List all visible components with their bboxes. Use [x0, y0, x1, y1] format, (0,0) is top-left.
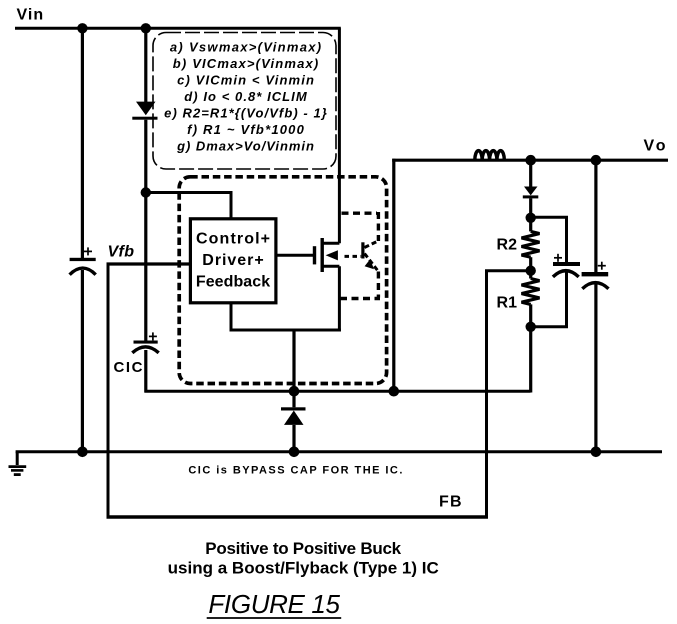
formula note box [153, 33, 336, 170]
wire CIC bottom lead [144, 350, 147, 393]
resistor R2 [522, 231, 540, 257]
wire VIC to control box top [146, 193, 231, 220]
wire D1 anode lead [144, 28, 147, 102]
junction D1 anode [141, 23, 151, 33]
wire FB loop left vertical [107, 264, 110, 519]
IC dashed outline [179, 177, 386, 384]
wire gate lead [276, 254, 313, 257]
transistor Q2 dashed BJT [340, 212, 380, 299]
svg-text:d) Io < 0.8* ICLIM: d) Io < 0.8* ICLIM [184, 89, 308, 104]
wire output rail [392, 159, 668, 162]
wire D1 cathode to node VIC [144, 120, 147, 192]
junction dot inductor out [525, 155, 536, 166]
wire CIC top lead [144, 193, 147, 342]
wire R2 to R1 [529, 257, 532, 278]
svg-text:c) VICmin < Vinmin: c) VICmin < Vinmin [177, 73, 314, 88]
svg-text:a) Vswmax>(Vinmax): a) Vswmax>(Vinmax) [170, 40, 321, 55]
svg-text:R1: R1 [497, 294, 518, 311]
svg-text:CIC is BYPASS CAP FOR THE IC.: CIC is BYPASS CAP FOR THE IC. [188, 465, 402, 477]
junction dot feedback cap top [526, 213, 536, 223]
junction dot output cap ground [591, 447, 602, 458]
inductor L1 [475, 151, 505, 161]
wire FB loop bottom [107, 515, 489, 518]
svg-text:Feedback: Feedback [196, 273, 270, 290]
wire C2 bottom lead [531, 272, 567, 327]
junction dot feedback tap [526, 266, 536, 276]
svg-text:Control+: Control+ [196, 231, 270, 248]
svg-text:Driver+: Driver+ [202, 252, 263, 269]
svg-text:f) R1 ~ Vfb*1000: f) R1 ~ Vfb*1000 [187, 122, 304, 137]
svg-text:Positive to Positive Buck: Positive to Positive Buck [205, 539, 401, 558]
svg-text:using a Boost/Flyback (Type 1): using a Boost/Flyback (Type 1) IC [168, 559, 439, 578]
wire drain to Vin rail [338, 28, 341, 243]
svg-text:CIC: CIC [114, 359, 143, 376]
svg-text:R2: R2 [497, 236, 518, 253]
node VIC junction dot [141, 187, 151, 197]
wire ground bus [16, 450, 662, 453]
junction dot R1 bottom [526, 322, 536, 332]
wire control box bottom stub [230, 303, 233, 332]
diode D1 [132, 102, 157, 120]
wire input cap bottom lead [81, 270, 84, 452]
capacitor C3 output [582, 160, 609, 452]
control block U1 [190, 219, 276, 303]
svg-text:Vin: Vin [17, 7, 44, 24]
svg-text:Vfb: Vfb [108, 243, 135, 260]
junction input cap top [77, 23, 87, 33]
wire switch riser to inductor [392, 159, 395, 392]
capacitor C2 [553, 254, 580, 277]
junction dot switch node riser [389, 386, 400, 397]
junction dot catch diode bottom [289, 447, 300, 458]
diode D3 catch [281, 391, 306, 452]
wire feedback tap to FB loop [487, 271, 531, 519]
wire Vin top rail [15, 27, 341, 30]
junction dot input cap ground [77, 447, 88, 458]
junction dot output cap tap [591, 155, 602, 166]
wire switch node horizontal [145, 390, 531, 393]
capacitor CIC [132, 332, 158, 352]
svg-text:b) VICmax>(Vinmax): b) VICmax>(Vinmax) [173, 56, 318, 71]
wire source down [338, 266, 341, 331]
wire input cap top lead [81, 28, 84, 258]
wire to C2 top [531, 217, 567, 262]
figure underline [207, 617, 342, 619]
resistor R1 [522, 279, 540, 305]
diode D2 [523, 160, 539, 218]
wire switch node vertical [292, 329, 295, 392]
wire R2 top lead [529, 218, 532, 232]
svg-text:g) Dmax>Vo/Vinmin: g) Dmax>Vo/Vinmin [176, 139, 314, 154]
svg-text:FIGURE 15: FIGURE 15 [208, 589, 340, 619]
svg-text:e) R2=R1*{(Vo/Vfb) - 1}: e) R2=R1*{(Vo/Vfb) - 1} [164, 106, 327, 121]
capacitor CIN [70, 247, 96, 274]
svg-text:FB: FB [439, 493, 462, 510]
junction dot catch diode top [289, 386, 300, 397]
wire Vfb [107, 262, 191, 265]
wire R1 bottom to switch node [529, 304, 532, 392]
ground symbol [9, 452, 27, 475]
wire IC internal bottom [230, 329, 341, 332]
transistor Q1 MOSFET [313, 238, 340, 272]
